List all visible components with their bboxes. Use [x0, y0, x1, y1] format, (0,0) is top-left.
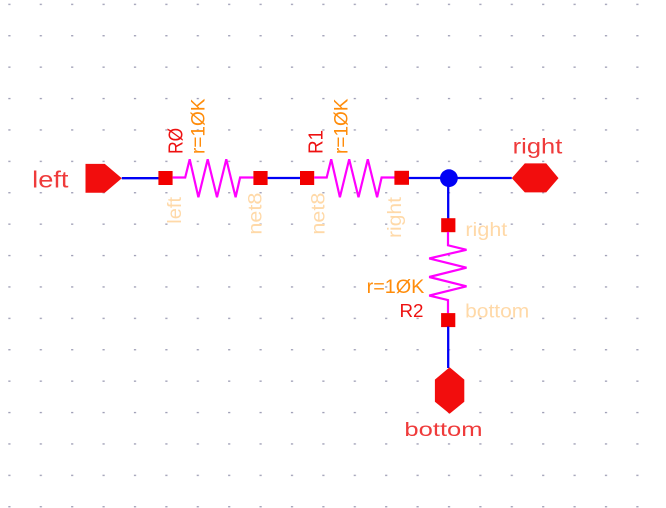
svg-text:net8: net8: [244, 193, 266, 235]
pin bottom (hexagonal pin symbol, vertical): [435, 367, 464, 414]
svg-text:bottom: bottom: [465, 302, 529, 323]
resistor R2 body: [429, 232, 466, 313]
resistor R2 bottom terminal: [441, 313, 455, 327]
resistor R1 left terminal: [300, 171, 314, 185]
svg-text:RØ: RØ: [166, 128, 188, 154]
wire: R0 to R1: [268, 177, 301, 179]
svg-text:right: right: [465, 219, 508, 241]
svg-text:left: left: [32, 167, 69, 193]
wire: R2 to bottom pin: [447, 327, 449, 369]
pin left (input pin symbol): [86, 164, 122, 193]
svg-text:bottom: bottom: [404, 419, 482, 441]
svg-text:net8: net8: [307, 193, 329, 235]
svg-text:r=1ØK: r=1ØK: [188, 98, 209, 154]
resistor R2 top terminal: [441, 218, 455, 232]
wire: junction down to R2: [447, 178, 449, 219]
svg-text:left: left: [165, 196, 186, 224]
svg-text:R2: R2: [400, 301, 424, 321]
resistor R0 right terminal: [253, 171, 267, 185]
svg-text:right: right: [513, 136, 563, 159]
pin right (hexagonal pin symbol): [512, 163, 559, 192]
wire: left pin to R0: [122, 177, 159, 179]
svg-text:R1: R1: [306, 130, 328, 154]
svg-text:right: right: [384, 196, 406, 238]
svg-text:r=1ØK: r=1ØK: [332, 98, 353, 154]
resistor R1 body: [314, 159, 395, 197]
wire: R1 to right pin: [409, 177, 512, 179]
svg-text:r=1ØK: r=1ØK: [367, 277, 425, 298]
resistor R0 body: [173, 159, 254, 197]
wire junction node: [440, 169, 458, 187]
resistor R0 left terminal: [158, 171, 172, 185]
resistor R1 right terminal: [394, 171, 409, 185]
